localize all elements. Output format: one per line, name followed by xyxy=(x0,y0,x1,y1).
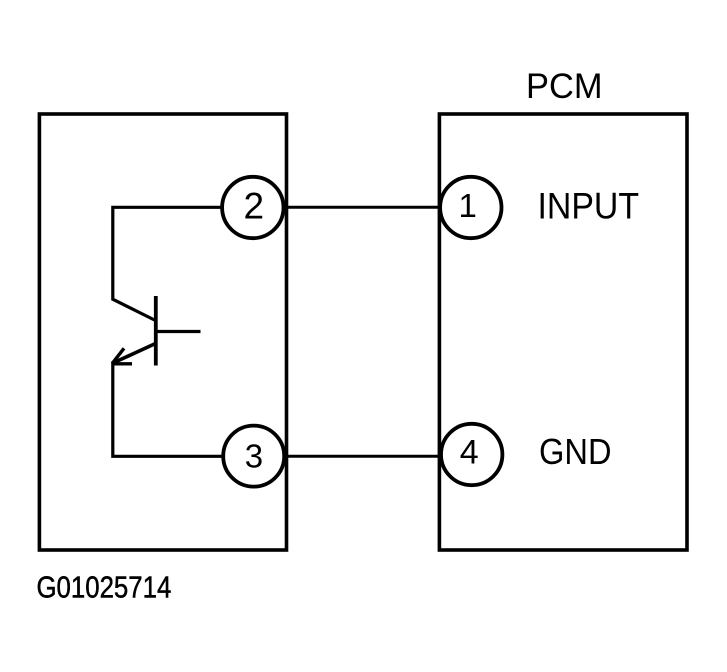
svg-text:4: 4 xyxy=(460,434,479,472)
svg-text:2: 2 xyxy=(244,186,265,227)
svg-text:G01025714: G01025714 xyxy=(37,571,172,605)
svg-text:PCM: PCM xyxy=(526,67,603,106)
svg-text:1: 1 xyxy=(459,187,477,224)
svg-text:GND: GND xyxy=(539,431,612,472)
svg-text:INPUT: INPUT xyxy=(538,186,640,227)
svg-text:3: 3 xyxy=(245,438,263,475)
